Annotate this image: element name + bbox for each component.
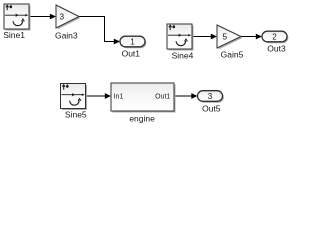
- svg-text:Sine1: Sine1: [3, 30, 25, 40]
- svg-text:3: 3: [208, 92, 213, 101]
- svg-text:Gain5: Gain5: [221, 49, 244, 59]
- svg-text:Out1: Out1: [122, 48, 141, 58]
- svg-text:Out1: Out1: [155, 93, 170, 100]
- svg-text:Sine4: Sine4: [172, 51, 194, 61]
- svg-text:2: 2: [272, 32, 277, 41]
- svg-text:1: 1: [130, 37, 135, 46]
- svg-text:Out3: Out3: [267, 44, 286, 54]
- svg-text:5: 5: [222, 32, 227, 42]
- svg-text:Sine5: Sine5: [65, 110, 87, 120]
- svg-text:Out5: Out5: [202, 104, 221, 114]
- svg-text:engine: engine: [129, 114, 155, 124]
- svg-text:3: 3: [59, 12, 64, 22]
- svg-text:In1: In1: [114, 93, 124, 100]
- svg-text:Gain3: Gain3: [55, 30, 78, 40]
